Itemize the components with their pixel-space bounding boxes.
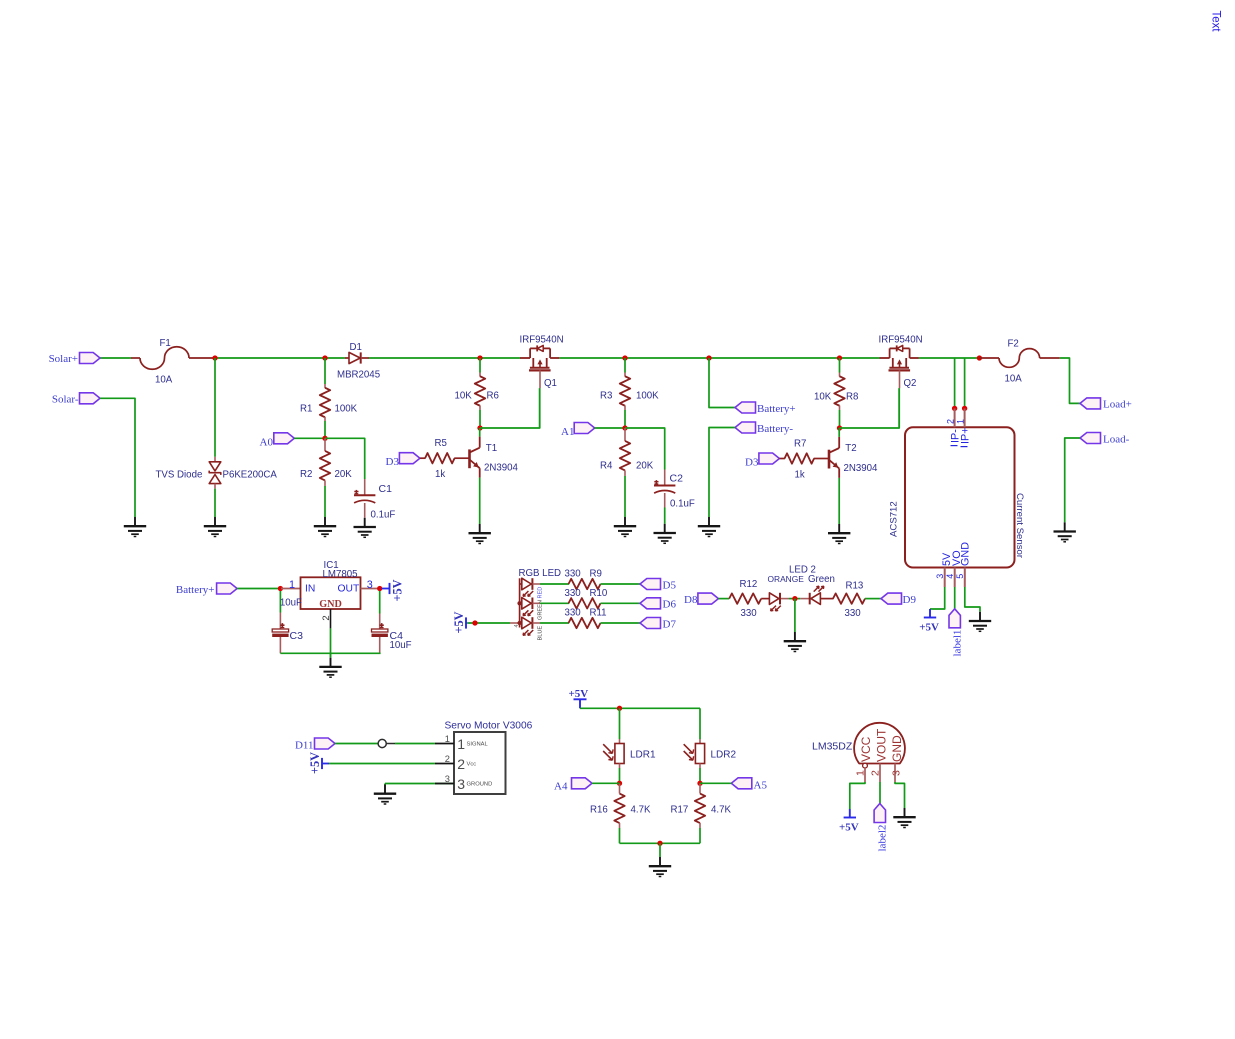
junction RGB row2 xyxy=(517,601,521,605)
junction bus/R1 xyxy=(322,355,327,360)
svg-text:+5V: +5V xyxy=(839,821,859,833)
svg-text:10uF: 10uF xyxy=(390,640,412,651)
wire rail to ground xyxy=(330,653,332,657)
power +5V (ACS712) xyxy=(929,609,931,618)
svg-text:R12: R12 xyxy=(740,579,758,590)
servo pin2 stub xyxy=(435,763,454,765)
svg-text:330: 330 xyxy=(565,588,582,599)
LED RED element xyxy=(520,583,522,585)
svg-text:ACS712: ACS712 xyxy=(889,501,900,537)
svg-text:R13: R13 xyxy=(846,580,864,591)
pin 1 circle (LM35) xyxy=(863,763,868,768)
junction IP- pin xyxy=(952,406,957,411)
LED RED cathode lead xyxy=(532,583,540,585)
svg-text:D3: D3 xyxy=(745,457,759,469)
IC1 pin1 stub xyxy=(281,588,301,590)
net flag A5 xyxy=(731,778,752,789)
svg-text:+5V: +5V xyxy=(919,621,939,633)
wire D1 to Q1 xyxy=(369,357,520,359)
wire R1 to node A0 xyxy=(324,421,326,438)
svg-text:A5: A5 xyxy=(754,779,768,791)
svg-text:TVS Diode: TVS Diode xyxy=(156,469,203,480)
svg-text:IRF9540N: IRF9540N xyxy=(520,334,564,345)
wire R11 to D7 xyxy=(601,622,641,624)
wire node A1 to C2 xyxy=(625,428,665,470)
svg-text:4: 4 xyxy=(945,574,955,579)
svg-text:GROUND: GROUND xyxy=(467,782,493,788)
resistor R12 xyxy=(729,593,761,603)
LED RGB common bus xyxy=(510,622,520,624)
wire TVS to ground xyxy=(214,489,216,517)
svg-text:2: 2 xyxy=(321,615,332,620)
svg-text:1: 1 xyxy=(955,419,965,424)
svg-text:D6: D6 xyxy=(663,599,677,611)
pin 4 VO stub xyxy=(954,568,956,588)
svg-text:label2: label2 xyxy=(877,825,889,852)
net flag D11 xyxy=(315,738,336,749)
resistor R4 xyxy=(624,428,626,441)
svg-text:Load-: Load- xyxy=(1103,433,1130,445)
svg-text:Servo Motor V3006: Servo Motor V3006 xyxy=(445,721,533,732)
pin 2 stub (LM35) xyxy=(879,764,881,783)
svg-text:Battery+: Battery+ xyxy=(176,584,215,596)
svg-text:2: 2 xyxy=(445,754,450,764)
IC1 pin3 stub xyxy=(361,588,380,590)
svg-text:C1: C1 xyxy=(379,483,393,495)
resistor R16 xyxy=(619,783,621,793)
servo motor connector body xyxy=(454,732,506,794)
svg-text:4: 4 xyxy=(514,624,520,627)
resistor R11 xyxy=(569,618,601,628)
resistor R2 xyxy=(324,438,326,451)
svg-text:4.7K: 4.7K xyxy=(631,805,651,816)
svg-text:D11: D11 xyxy=(295,739,314,751)
svg-text:BLUE: BLUE xyxy=(538,626,544,641)
wire Q1 gate green xyxy=(539,388,541,428)
ground (ACS712) xyxy=(979,612,981,621)
net flag D7 xyxy=(640,618,661,629)
svg-text:0.1uF: 0.1uF xyxy=(371,510,396,521)
resistor R10 xyxy=(569,598,601,608)
svg-text:100K: 100K xyxy=(636,391,659,402)
resistor R3 xyxy=(624,358,626,373)
svg-text:1: 1 xyxy=(445,734,450,744)
wire R4 to ground xyxy=(624,476,626,517)
wire orange-green node xyxy=(789,598,800,600)
wire +5V LDR rail xyxy=(580,707,700,709)
svg-text:330: 330 xyxy=(565,608,582,619)
LED GREEN cathode lead xyxy=(532,602,540,604)
capacitor C2 xyxy=(664,470,666,486)
wire LDR bottom rail xyxy=(620,842,701,844)
svg-text:IP+: IP+ xyxy=(960,427,972,444)
svg-text:D9: D9 xyxy=(903,594,917,606)
svg-text:330: 330 xyxy=(845,608,862,619)
TVS diode D P6KE200CA xyxy=(214,457,216,462)
diode D1 MBR2045 xyxy=(345,357,349,359)
resistor R8 xyxy=(839,358,841,373)
svg-text:R8: R8 xyxy=(846,392,858,403)
svg-text:Q1: Q1 xyxy=(544,378,557,389)
svg-text:Solar-: Solar- xyxy=(52,393,79,405)
junction node A5 xyxy=(697,781,702,786)
svg-text:10A: 10A xyxy=(1005,374,1023,385)
net flag D9 xyxy=(881,593,902,604)
pin 5 GND stub xyxy=(964,568,966,588)
net flag D3 (ch2) xyxy=(759,453,780,464)
wire bus F1 to D1 xyxy=(215,357,345,359)
LED BLUE element xyxy=(520,622,522,624)
fuse F2 xyxy=(979,357,999,359)
wire node A0 to C1 xyxy=(325,438,365,479)
wire LM35 pin3 to ground xyxy=(895,782,905,808)
svg-text:Green: Green xyxy=(808,574,835,585)
junction IP+ pin xyxy=(962,406,967,411)
wire ACS pin5 to ground xyxy=(965,587,980,612)
wire port circle xyxy=(378,739,386,747)
sensor LM35DZ body xyxy=(854,723,905,764)
svg-text:Battery-: Battery- xyxy=(757,423,793,435)
capacitor C1 xyxy=(364,479,366,495)
power +5V (servo) xyxy=(321,758,323,769)
capacitor C4 xyxy=(379,591,381,614)
svg-text:ORANGE: ORANGE xyxy=(768,574,805,584)
wire +5V to RGB LED xyxy=(467,622,510,624)
ground (T1) xyxy=(479,524,481,533)
wire A4 flag to node xyxy=(592,782,620,784)
svg-text:GND: GND xyxy=(959,542,971,566)
svg-text:GND: GND xyxy=(890,735,904,762)
svg-text:R7: R7 xyxy=(794,439,806,450)
wire Battery+ to IC1 pin1 xyxy=(237,588,281,590)
transistor T1 2N3904 xyxy=(468,449,471,468)
svg-text:1k: 1k xyxy=(795,469,805,480)
svg-text:Current Sensor: Current Sensor xyxy=(1014,493,1025,559)
node A1 junction xyxy=(622,425,627,430)
svg-text:GND: GND xyxy=(319,599,342,610)
pin 1 stub (LM35) xyxy=(864,768,866,782)
svg-text:R4: R4 xyxy=(600,461,613,472)
svg-text:5: 5 xyxy=(955,574,965,579)
svg-text:3: 3 xyxy=(367,579,373,591)
net flag Load- xyxy=(1080,433,1101,444)
svg-text:R3: R3 xyxy=(600,391,612,402)
ground (R4) xyxy=(624,517,626,526)
junction C4 node xyxy=(377,586,382,591)
svg-text:C3: C3 xyxy=(290,630,304,642)
MOSFET Q2 IRF9540N xyxy=(880,357,890,359)
svg-text:R1: R1 xyxy=(300,404,312,415)
wire Q1 to Q2 bus xyxy=(560,357,880,359)
ground (LM35) xyxy=(904,808,906,817)
svg-text:R9: R9 xyxy=(590,568,602,579)
wire LDR1 to node xyxy=(619,768,621,783)
pin 1 IP+ stub xyxy=(964,408,966,427)
ground (LED2) xyxy=(794,632,796,641)
node gate1 junction xyxy=(477,425,482,430)
junction LED2 node xyxy=(792,596,797,601)
svg-text:+5V: +5V xyxy=(452,611,466,633)
svg-text:RED: RED xyxy=(538,587,544,599)
ground (C1) xyxy=(364,518,366,527)
wire R16 to bottom rail xyxy=(619,828,621,843)
net flag Solar+ xyxy=(80,353,101,364)
wire R17 to bottom rail xyxy=(699,828,701,843)
net flag Load+ xyxy=(1080,398,1101,409)
svg-text:VOUT: VOUT xyxy=(875,728,889,762)
svg-text:OUT: OUT xyxy=(338,584,360,595)
svg-text:SIGNAL: SIGNAL xyxy=(467,741,489,747)
ground (T2) xyxy=(838,524,840,533)
ground (servo) xyxy=(384,785,386,794)
transistor T2 2N3904 xyxy=(828,450,831,469)
resistor R17 xyxy=(699,783,701,793)
net flag Battery+ (bus) xyxy=(735,402,756,413)
junction LDR1 top xyxy=(617,706,622,711)
svg-text:Battery+: Battery+ xyxy=(757,403,796,415)
svg-text:1: 1 xyxy=(855,770,867,776)
pin 2 IP- stub xyxy=(954,408,956,427)
svg-text:R2: R2 xyxy=(300,469,312,480)
wire R10 to D6 xyxy=(601,602,641,604)
ground (C2) xyxy=(664,524,666,533)
resistor R9 xyxy=(569,579,601,589)
svg-text:R16: R16 xyxy=(590,805,608,816)
svg-text:R5: R5 xyxy=(435,438,447,449)
junction node A4 xyxy=(617,781,622,786)
svg-text:4.7K: 4.7K xyxy=(711,805,731,816)
wire R2 to ground xyxy=(324,486,326,517)
servo pin3 stub xyxy=(435,783,454,785)
wire A0 flag to node xyxy=(294,437,325,439)
wire LM35 pin1 to +5V xyxy=(850,782,865,809)
wire LED2 node to ground xyxy=(794,599,796,632)
wire LDR2 to node xyxy=(699,768,701,783)
svg-text:LM35DZ: LM35DZ xyxy=(812,741,853,753)
svg-text:1: 1 xyxy=(457,736,465,752)
junction bus/R6 xyxy=(477,355,482,360)
svg-text:2: 2 xyxy=(457,756,465,772)
svg-text:LDR2: LDR2 xyxy=(711,749,737,760)
wire Solar+ to fuse F1 xyxy=(100,357,131,359)
svg-text:label1: label1 xyxy=(952,630,964,657)
svg-text:P6KE200CA: P6KE200CA xyxy=(223,469,278,480)
svg-text:+5V: +5V xyxy=(308,752,322,774)
junction RGB row3 xyxy=(517,621,521,625)
power +5V (RGB row) xyxy=(465,617,467,628)
svg-text:0.1uF: 0.1uF xyxy=(670,499,695,510)
junction bus/Battery+ xyxy=(706,355,711,360)
wire LM35 pin2 to label2 xyxy=(879,782,881,804)
wire IC1 gnd pin down xyxy=(330,628,332,657)
IC ACS712 current sensor body xyxy=(905,427,1015,567)
svg-text:10uF: 10uF xyxy=(280,598,302,609)
net flag Battery- xyxy=(735,422,756,433)
svg-text:100K: 100K xyxy=(335,404,358,415)
wire Load- to ground xyxy=(1065,438,1080,522)
svg-text:D1: D1 xyxy=(350,342,362,353)
ground (R2) xyxy=(324,517,326,526)
junction bus/F2 xyxy=(977,355,982,360)
svg-text:1: 1 xyxy=(289,579,295,591)
wire +5V to servo pin2 xyxy=(329,763,435,765)
svg-text:10A: 10A xyxy=(155,375,173,386)
svg-text:Q2: Q2 xyxy=(904,378,917,389)
svg-text:20K: 20K xyxy=(335,469,353,480)
wire gate node to Q2 gate xyxy=(840,388,900,428)
ground (IC1) xyxy=(330,658,332,667)
svg-text:3: 3 xyxy=(445,774,450,784)
wire to R9 xyxy=(540,583,569,585)
junction LDR ground xyxy=(657,841,662,846)
wire cap bottom rail xyxy=(280,652,380,654)
net flag label1 xyxy=(949,609,960,628)
svg-text:LM7805: LM7805 xyxy=(323,569,358,580)
wire Battery- to ground xyxy=(709,428,735,518)
junction C3 node xyxy=(278,586,283,591)
svg-text:A0: A0 xyxy=(260,436,274,448)
net flag Solar- xyxy=(80,393,101,404)
ground (LDR) xyxy=(659,857,661,866)
ground (Battery-) xyxy=(708,517,710,526)
wire gate node to Q1 gate xyxy=(480,388,540,428)
wire IP- riser xyxy=(954,358,956,406)
svg-text:RGB LED: RGB LED xyxy=(519,568,562,579)
wire A1 flag to node xyxy=(595,427,625,429)
svg-text:330: 330 xyxy=(741,608,758,619)
svg-text:1k: 1k xyxy=(435,469,445,480)
power +5V (IC1 out) xyxy=(382,588,390,590)
wire rail to ground xyxy=(659,843,661,857)
power +5V (LM35) xyxy=(849,809,851,818)
net flag D6 xyxy=(640,598,661,609)
ground (Load-) xyxy=(1064,522,1066,531)
LED ORANGE xyxy=(761,598,769,600)
net flag A4 xyxy=(572,778,593,789)
wire D11 to servo pin1 xyxy=(335,743,378,745)
svg-text:A4: A4 xyxy=(554,780,568,792)
photoresistor LDR1 xyxy=(619,739,621,744)
svg-text:F1: F1 xyxy=(160,338,171,349)
svg-text:R17: R17 xyxy=(671,805,689,816)
net flag A0 xyxy=(274,433,295,444)
svg-text:F2: F2 xyxy=(1008,339,1019,350)
svg-text:LDR1: LDR1 xyxy=(630,749,656,760)
net flag Battery+ (IC1) xyxy=(217,583,238,594)
svg-text:T1: T1 xyxy=(486,443,497,454)
junction bus/R3 xyxy=(622,355,627,360)
svg-text:2N3904: 2N3904 xyxy=(484,463,519,474)
svg-text:3: 3 xyxy=(935,574,945,579)
photoresistor LDR2 xyxy=(699,739,701,744)
svg-text:10K: 10K xyxy=(455,391,473,402)
wire D8 to R12 xyxy=(718,598,729,600)
capacitor C3 xyxy=(279,591,281,613)
resistor R6 xyxy=(479,358,481,373)
svg-text:330: 330 xyxy=(565,568,582,579)
svg-text:2: 2 xyxy=(870,770,882,776)
ground (Solar-) xyxy=(134,517,136,526)
net flag label2 xyxy=(874,804,885,823)
svg-text:Solar+: Solar+ xyxy=(49,353,78,365)
wire TVS branch xyxy=(214,358,216,457)
svg-text:R11: R11 xyxy=(590,608,607,619)
wire T2 emitter to ground xyxy=(838,478,840,524)
wire rail to LDR2 xyxy=(699,708,701,739)
net flag A1 xyxy=(574,423,595,434)
svg-text:2: 2 xyxy=(945,419,955,424)
net flag D3 (ch1) xyxy=(399,453,420,464)
servo pin1 stub xyxy=(435,743,454,745)
svg-text:3: 3 xyxy=(457,776,465,792)
wire Q2 gate green xyxy=(898,388,900,428)
svg-text:+5V: +5V xyxy=(569,688,589,700)
resistor R13 xyxy=(833,593,865,603)
wire to R10 xyxy=(540,602,569,604)
resistor R7 xyxy=(779,458,785,460)
wire IP+ riser xyxy=(964,358,966,406)
power +5V (LDR) xyxy=(579,699,581,708)
junction bus/TVS xyxy=(212,355,217,360)
wire ACS pin3 to +5V xyxy=(930,587,945,609)
svg-text:2N3904: 2N3904 xyxy=(844,463,879,474)
svg-text:D8: D8 xyxy=(684,594,698,606)
svg-text:MBR2045: MBR2045 xyxy=(337,369,380,380)
resistor R5 xyxy=(420,457,426,459)
svg-text:+5V: +5V xyxy=(391,579,405,601)
svg-text:Vcc: Vcc xyxy=(467,762,477,768)
wire servo pin3 to ground xyxy=(435,783,454,785)
svg-text:VCC: VCC xyxy=(859,736,873,762)
svg-text:A1: A1 xyxy=(561,426,574,438)
svg-text:Text: Text xyxy=(1210,11,1222,33)
IC1 pin2 GND stub xyxy=(330,609,332,628)
svg-text:20K: 20K xyxy=(636,461,654,472)
MOSFET Q1 IRF9540N xyxy=(520,357,530,359)
LED Green xyxy=(800,598,809,600)
wire R13 to D9 xyxy=(865,598,881,600)
pin 3 stub (LM35) xyxy=(894,764,896,783)
svg-text:D7: D7 xyxy=(663,618,677,630)
svg-text:T2: T2 xyxy=(845,443,856,454)
junction bus/R8 xyxy=(837,355,842,360)
svg-text:Load+: Load+ xyxy=(1103,399,1132,411)
LED GREEN element xyxy=(520,602,522,604)
net flag D5 xyxy=(640,579,661,590)
wire Solar- to ground xyxy=(100,398,135,517)
wire to R11 xyxy=(540,622,569,624)
pin 3 5V stub xyxy=(944,568,946,588)
node gate2 junction xyxy=(837,425,842,430)
svg-text:3: 3 xyxy=(891,770,903,776)
fuse F1 xyxy=(131,357,140,359)
IC IC1 LM7805 body xyxy=(301,577,361,609)
svg-text:10K: 10K xyxy=(814,392,832,403)
wire rail to LDR1 xyxy=(619,708,621,739)
svg-text:IRF9540N: IRF9540N xyxy=(879,334,923,345)
wire A5 flag to node xyxy=(700,782,731,784)
svg-text:IN: IN xyxy=(305,584,315,595)
svg-text:R6: R6 xyxy=(487,391,499,402)
svg-text:D3: D3 xyxy=(386,456,400,468)
svg-text:R10: R10 xyxy=(590,588,608,599)
node A0 junction xyxy=(322,436,327,441)
net flag D8 xyxy=(698,593,719,604)
wire F2 to Load+ xyxy=(1060,358,1080,403)
svg-text:D5: D5 xyxy=(663,579,677,591)
wire Q2 to F2 region xyxy=(919,357,979,359)
wire Battery+ branch xyxy=(709,358,735,408)
